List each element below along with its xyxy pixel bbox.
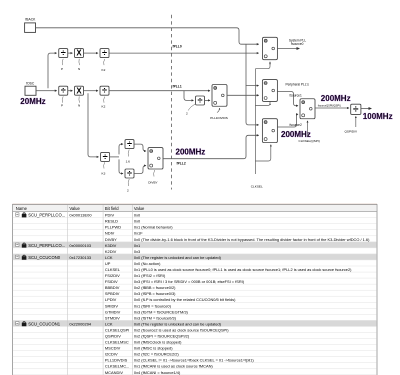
wire div2 to mux PLL1DIVDIS	[205, 99, 210, 101]
svg-text:CLKSELMSC: CLKSELMSC	[105, 340, 129, 345]
wire to divider P per	[48, 90, 57, 92]
svg-text:STMDIV: STMDIV	[105, 315, 120, 320]
svg-text:FSI2DIV: FSI2DIV	[105, 273, 120, 278]
svg-text:SCU_PERPLLCO...: SCU_PERPLLCO...	[28, 243, 65, 248]
arrow endpoint fQSPI	[369, 107, 373, 110]
svg-text:DIVBY: DIVBY	[105, 237, 117, 242]
bitfield row K2DIV	[105, 249, 117, 254]
svg-text:0x0 (No action): 0x0 (No action)	[134, 261, 161, 266]
svg-text:0x2 (CLKSEL != 01 ->fsource1=f: 0x2 (CLKSEL != 01 ->fsource1=fback CLKSE…	[134, 358, 254, 363]
select QSPIDIV	[355, 116, 357, 127]
wire to divider P sys	[48, 53, 57, 88]
svg-text:2: 2	[127, 189, 129, 193]
svg-text:LCK: LCK	[105, 255, 113, 260]
svg-text:SCU_CCUCON1: SCU_CCUCON1	[28, 321, 61, 326]
leader K2 sys	[104, 59, 105, 65]
svg-text:0x0 (fMSCclock is stopped): 0x0 (fMSCclock is stopped)	[134, 340, 182, 345]
svg-text:K3: K3	[102, 171, 106, 175]
wire div2 to DIVBY	[134, 166, 146, 174]
mux fsourceQSPI	[300, 99, 315, 119]
oscillator fBACK	[25, 17, 36, 32]
svg-text:QSPIDIV: QSPIDIV	[345, 130, 358, 134]
bitfield row FSIDIV	[105, 279, 118, 284]
svg-text:UP: UP	[105, 261, 111, 266]
bitfield row CLKSEL	[105, 267, 121, 272]
svg-text:Peripheral PLL's: Peripheral PLL's	[286, 82, 310, 86]
leader P sys	[62, 59, 63, 65]
bitfield row PLLPWD	[105, 225, 121, 230]
svg-text:fPLL1: fPLL1	[173, 84, 182, 88]
svg-text:÷: ÷	[127, 169, 132, 179]
select CLKSELQSPI	[307, 121, 309, 137]
wire fPLL1 sel to mux fsource1	[227, 94, 259, 96]
svg-text:0x3 (fSPB = fsource0/3): 0x3 (fSPB = fsource0/3)	[134, 291, 176, 296]
wire fBACK to mux fsource2	[246, 86, 259, 125]
svg-text:K2DIV: K2DIV	[105, 249, 117, 254]
svg-text:X: X	[76, 49, 82, 58]
svg-text:CLKSELMC...: CLKSELMC...	[105, 364, 130, 369]
leader DIVBY	[154, 170, 155, 177]
wire fsourceQSPI	[315, 107, 349, 109]
svg-text:0x0 (fLP is controlled by the: 0x0 (fLP is controlled by the related CC…	[134, 297, 236, 302]
svg-text:÷: ÷	[103, 152, 108, 162]
leader 1.6	[128, 150, 129, 157]
svg-text:SPBDIV: SPBDIV	[105, 291, 120, 296]
mux DIVBY	[148, 148, 163, 169]
svg-text:BBBDIV: BBBDIV	[105, 285, 120, 290]
svg-text:Value: Value	[134, 206, 145, 211]
bitfield row CLKSELQSPI	[105, 327, 130, 332]
svg-text:NDIV: NDIV	[105, 231, 115, 236]
mux fsource0 (System PLL)	[263, 37, 278, 59]
leader N sys	[78, 59, 81, 65]
wire P to N per	[68, 90, 73, 92]
svg-text:0x3 (fGTM = fSOURCEGTM/3): 0x3 (fGTM = fSOURCEGTM/3)	[134, 309, 189, 314]
svg-text:P: P	[61, 104, 63, 108]
wire fPLL2 to mux fsource2	[163, 135, 259, 158]
svg-text:RESLD: RESLD	[105, 219, 118, 224]
svg-text:PDIV: PDIV	[105, 213, 115, 218]
svg-text:CLKSELQSPI: CLKSELQSPI	[105, 327, 130, 332]
svg-text:0x2 (fsource2 is used as clock: 0x2 (fsource2 is used as clock source fS…	[134, 327, 229, 332]
leader K3	[104, 162, 105, 168]
svg-text:0x22000294: 0x22000294	[69, 321, 91, 326]
svg-text:CLKSEL: CLKSEL	[105, 267, 121, 272]
bitfield row I2CDIV	[105, 352, 118, 357]
svg-text:MCANDIV: MCANDIV	[105, 370, 124, 375]
wire N to K2 per	[84, 90, 98, 92]
svg-text:LCK: LCK	[105, 321, 113, 326]
wire CLKSEL vertical	[254, 69, 256, 174]
select PLL1DIVDIS	[217, 108, 220, 112]
svg-text:÷: ÷	[61, 48, 66, 58]
svg-text:0x0 (fMSC is stopped): 0x0 (fMSC is stopped)	[134, 346, 173, 351]
svg-text:SCU_CCUCON0: SCU_CCUCON0	[28, 255, 61, 260]
svg-text:K3DIV: K3DIV	[105, 243, 117, 248]
select fsource1 wire	[255, 102, 270, 106]
divider QSPIDIV	[351, 104, 361, 116]
divider 1.6	[125, 139, 134, 149]
leader 2 PLL1	[188, 104, 195, 111]
svg-text:200MHz: 200MHz	[281, 130, 311, 139]
svg-text:20MHz: 20MHz	[20, 97, 45, 106]
arrow endpoint fsource0	[297, 47, 301, 50]
svg-text:DIVBY: DIVBY	[148, 180, 157, 184]
multiplier N (system PLL)	[75, 49, 84, 58]
divider K3	[101, 152, 110, 162]
svg-text:Value: Value	[69, 206, 80, 211]
bitfield row LCK	[105, 255, 113, 260]
mux PLL1DIVDIS	[212, 85, 227, 107]
svg-text:N: N	[78, 104, 80, 108]
svg-text:2: 2	[186, 111, 188, 115]
divider K2 (peripheral PLL)	[100, 86, 109, 96]
wire N to K2 sys	[84, 52, 98, 54]
wire fsource0 out	[277, 48, 297, 50]
svg-text:0x1 (fFSI2 = fSRI): 0x1 (fFSI2 = fSRI)	[134, 273, 166, 278]
register table	[13, 205, 378, 375]
mux fsource1 (Peripheral PLLs)	[262, 80, 277, 102]
svg-text:÷: ÷	[353, 105, 359, 116]
wire fBACK to mux fsource0	[36, 28, 259, 44]
svg-text:0x3: 0x3	[134, 249, 140, 254]
svg-text:÷: ÷	[102, 48, 107, 58]
svg-text:I2CDIV: I2CDIV	[105, 352, 118, 357]
wire P to N sys	[68, 52, 73, 54]
mux fsource2	[262, 119, 277, 143]
svg-text:200MHz: 200MHz	[321, 94, 351, 103]
svg-text:0x4 (fMCANI = fsource1/4): 0x4 (fMCANI = fsource1/4)	[134, 370, 181, 375]
svg-text:Bit field: Bit field	[105, 206, 119, 211]
register row SCU_CCUCON1	[16, 321, 92, 326]
leader N per	[78, 96, 81, 102]
leader P per	[62, 96, 63, 102]
svg-text:0x3 (fSTM = fsource0/3): 0x3 (fSTM = fsource0/3)	[134, 315, 177, 320]
svg-text:fPLL0: fPLL0	[173, 45, 182, 49]
select fsource1	[269, 103, 271, 105]
svg-text:100MHz: 100MHz	[363, 112, 393, 121]
bitfield row FSI2DIV	[105, 273, 120, 278]
svg-text:PLLPWD: PLLPWD	[105, 225, 121, 230]
bitfield row PDIV	[105, 213, 115, 218]
svg-text:0x0: 0x0	[134, 213, 141, 218]
wire fPLL1	[109, 90, 210, 92]
svg-text:0x2 (fI2C = fSOURCE2/2): 0x2 (fI2C = fSOURCE2/2)	[134, 352, 180, 357]
divider 2 (PLL1DIVDIS)	[196, 96, 205, 106]
bitfield row NDIV	[105, 231, 115, 236]
wire div1.6 to DIVBY	[134, 144, 146, 151]
svg-text:N: N	[78, 67, 80, 71]
svg-text:÷: ÷	[197, 96, 202, 106]
svg-text:fBACK: fBACK	[25, 17, 36, 21]
svg-text:K2: K2	[102, 68, 106, 72]
divider P (peripheral PLL)	[59, 86, 68, 96]
wire fPLL1 to div2	[184, 91, 193, 101]
bitfield row LPDIV	[105, 297, 117, 302]
leader 2	[128, 179, 129, 186]
svg-text:fsource2: fsource2	[290, 123, 302, 127]
svg-text:CLKSEL(QSPI): CLKSEL(QSPI)	[299, 139, 320, 143]
wire VCO to K3	[88, 93, 99, 157]
svg-text:fsourceQSPI(fQSPI): fsourceQSPI(fQSPI)	[318, 103, 341, 107]
svg-text:PLL1DIVDIS: PLL1DIVDIS	[105, 358, 128, 363]
svg-text:QSPIDIV: QSPIDIV	[105, 334, 121, 339]
svg-text:GTMDIV: GTMDIV	[105, 309, 121, 314]
select fsource0 wire	[255, 62, 270, 69]
oscillator fOSC	[25, 81, 36, 95]
bitfield row MSCDIV	[105, 346, 121, 351]
register row SCU_PERPLLCO	[16, 212, 93, 217]
bitfield row CLKSELMC...	[105, 364, 130, 369]
bitfield row SPBDIV	[105, 291, 120, 296]
svg-text:0x1 (fMCANI is used as clock s: 0x1 (fMCANI is used as clock source fMCA…	[134, 364, 213, 369]
select fsource2 wire	[255, 145, 270, 161]
select fsource2	[270, 145, 272, 147]
svg-text:CLKSEL: CLKSEL	[251, 184, 263, 188]
svg-text:÷: ÷	[61, 86, 66, 96]
svg-text:SCU_PERPLLCO...: SCU_PERPLLCO...	[28, 213, 65, 218]
svg-text:LPDIV: LPDIV	[105, 297, 117, 302]
bitfield row GTMDIV	[105, 309, 121, 314]
wire fBACK to mux fsource1	[246, 83, 259, 86]
bitfield row MCANDIV	[105, 370, 124, 375]
svg-text:fsource0: fsource0	[291, 42, 303, 46]
svg-text:0x1 (fSRI = fsource0): 0x1 (fSRI = fsource0)	[134, 303, 172, 308]
register row SCU_CCUCON0	[16, 255, 92, 260]
svg-text:0x0 (The register is unlocked: 0x0 (The register is unlocked and can be…	[134, 255, 222, 260]
leader K2 per	[104, 97, 105, 103]
bitfield row BBBDIV	[105, 285, 120, 290]
wire to div1.6	[119, 144, 123, 154]
svg-text:0x2 (fBBB = fsource0/2): 0x2 (fBBB = fsource0/2)	[134, 285, 176, 290]
svg-text:0x2 (fQSPI = fSOURCEQSPI/2): 0x2 (fQSPI = fSOURCEQSPI/2)	[134, 334, 190, 339]
bitfield row PLL1DIVDIS	[105, 358, 128, 363]
bitfield row LCK	[105, 321, 113, 326]
divider 2 (fPLL2)	[125, 169, 134, 179]
svg-text:FSIDIV: FSIDIV	[105, 279, 118, 284]
svg-text:÷: ÷	[127, 139, 132, 149]
svg-text:X: X	[76, 86, 82, 95]
svg-text:0x00000103: 0x00000103	[69, 243, 91, 248]
bitfield row STMDIV	[105, 315, 120, 320]
divider K2 (system PLL)	[100, 48, 109, 58]
svg-text:0x17230133: 0x17230133	[69, 255, 91, 260]
divider P (system PLL)	[59, 48, 68, 58]
svg-text:fsource1: fsource1	[290, 93, 302, 97]
wire fPLL0	[109, 52, 259, 54]
svg-text:0x1F: 0x1F	[134, 231, 143, 236]
svg-text:SRIDIV: SRIDIV	[105, 303, 119, 308]
svg-text:fPLL2: fPLL2	[177, 162, 186, 166]
svg-text:0x3 (fFSI = fSRI / 3 for SRIDI: 0x3 (fFSI = fSRI / 3 for SRIDIV = 000B o…	[134, 279, 245, 284]
bitfield row QSPIDIV	[105, 334, 121, 339]
bitfield row SRIDIV	[105, 303, 119, 308]
multiplier N (peripheral PLL)	[75, 86, 84, 95]
svg-text:MSCDIV: MSCDIV	[105, 346, 121, 351]
bitfield row K3DIV	[105, 243, 117, 248]
svg-text:P: P	[61, 67, 63, 71]
svg-text:0x1 (Normal behavior): 0x1 (Normal behavior)	[134, 225, 173, 230]
bitfield row UP	[105, 261, 111, 266]
bitfield row CLKSELMSC	[105, 340, 129, 345]
bitfield values column	[134, 213, 370, 375]
svg-text:÷: ÷	[102, 86, 107, 96]
svg-text:0x1: 0x1	[134, 243, 140, 248]
bitfield row DIVBY	[105, 237, 117, 242]
svg-text:0x0 (The register is unlocked: 0x0 (The register is unlocked and can be…	[134, 321, 222, 326]
svg-text:0x0 (The divide-by-1.6 block i: 0x0 (The divide-by-1.6 block in front of…	[134, 237, 370, 242]
svg-text:fOSC: fOSC	[26, 81, 35, 85]
bitfield row RESLD	[105, 219, 118, 224]
svg-text:0x00013E00: 0x00013E00	[69, 213, 92, 218]
select fsource0	[269, 62, 271, 65]
wire fBACK vertical	[245, 44, 247, 83]
wire fsource1 to mux QSPI	[277, 92, 298, 106]
wire to div2	[119, 159, 123, 173]
wire fQSPI out	[361, 108, 369, 110]
wire fsource2 to mux QSPI	[277, 114, 298, 127]
register row SCU_PERPLLCO	[16, 243, 92, 248]
svg-text:0x1 (fPLL0 is used as clock so: 0x1 (fPLL0 is used as clock source fsour…	[134, 267, 352, 272]
svg-text:1.6: 1.6	[126, 159, 131, 163]
svg-text:0x0: 0x0	[134, 219, 141, 224]
svg-text:K2: K2	[102, 105, 106, 109]
svg-text:PLL1DIVDIS: PLL1DIVDIS	[210, 116, 228, 120]
wire K3 out	[110, 156, 119, 158]
svg-text:200MHz: 200MHz	[176, 147, 206, 156]
wire fOSC out	[36, 90, 48, 92]
dashed boundary line	[171, 15, 173, 190]
svg-text:Name: Name	[16, 206, 28, 211]
table top accent line	[13, 203, 378, 205]
